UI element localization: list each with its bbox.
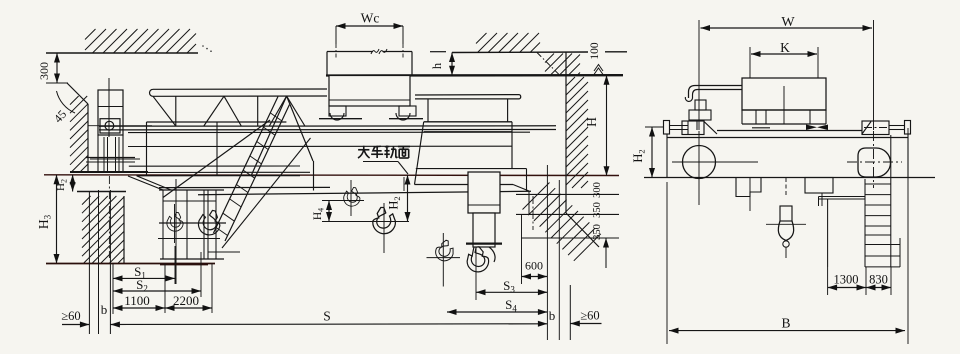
aux hook low (433, 238, 457, 263)
ceiling notch hatch (545, 54, 554, 63)
dimension 1300 830 (827, 267, 829, 295)
right rail centerline (532, 196, 534, 230)
svg-text:1100: 1100 (124, 293, 150, 308)
svg-text:830: 830 (869, 273, 888, 287)
right wall dim ticks (516, 193, 619, 195)
dimension K (749, 47, 751, 78)
dimension h (451, 53, 453, 76)
left wheel centerline (108, 176, 110, 258)
svg-text:2200: 2200 (173, 293, 199, 308)
hoist hook A1 (166, 212, 184, 232)
deck long lines (99, 125, 556, 127)
left wall face (87, 104, 89, 172)
hoist cage verticals (162, 190, 164, 259)
side end block left (682, 121, 704, 135)
side end block right (862, 121, 889, 135)
dimension 600 (521, 215, 523, 284)
under rail box left (736, 178, 761, 197)
trolley body (329, 76, 410, 107)
ladder stringers (214, 97, 279, 234)
ceiling hatch right (476, 33, 487, 44)
ceiling end dots (202, 45, 204, 47)
trolley rail bowtie (806, 125, 817, 131)
crane top heavy line (326, 74, 623, 77)
ceiling line left (46, 52, 198, 54)
dimension 1100 2200 (112, 264, 114, 315)
H4 top ref line (322, 200, 364, 202)
stair handrail (163, 120, 270, 198)
dimension H3 (56, 175, 58, 264)
main hook suspension (466, 243, 502, 245)
dimension W (698, 20, 700, 130)
svg-text:S: S (323, 309, 331, 324)
walkway bar left (150, 89, 328, 96)
floor line (46, 263, 215, 265)
svg-text:H: H (584, 117, 599, 127)
dimension H4 (328, 201, 330, 222)
dimension S2 (200, 252, 202, 297)
hoist hook A2 (196, 208, 222, 237)
trolley top break marks (371, 49, 379, 54)
rail surface line full (44, 174, 619, 177)
right buffer side view (905, 121, 911, 135)
svg-text:K: K (780, 40, 790, 55)
side rail line (644, 177, 935, 179)
under rail box right (805, 178, 833, 194)
svg-text:h: h (430, 62, 444, 69)
gooseneck conduit pipe (689, 86, 743, 99)
girder end bevels (128, 176, 163, 190)
main lowered hook (465, 246, 490, 274)
left end carriage bearing (100, 119, 120, 133)
svg-text:300: 300 (37, 62, 51, 80)
dimension S1 (174, 246, 176, 284)
side girder top lines (717, 130, 862, 132)
dimension S3 (546, 165, 548, 340)
svg-text:350: 350 (592, 224, 603, 240)
ceiling line right (430, 51, 446, 53)
hoist cage horizontals (159, 189, 224, 191)
wall chamfer 45 (67, 83, 88, 104)
svg-text:Wc: Wc (361, 11, 380, 26)
left wall hatch (70, 96, 79, 105)
rail leader arrow (403, 177, 405, 191)
side ladder (864, 179, 866, 267)
walkway bar right (415, 95, 521, 99)
arrow under ticks (605, 238, 607, 268)
side platform (819, 196, 866, 198)
main hook block (468, 172, 500, 213)
dimension S4 (447, 311, 547, 313)
left end carriage column (98, 90, 123, 135)
svg-text:b: b (101, 302, 108, 317)
H4 H2 bottom ref line (322, 221, 409, 223)
dimension H2 mid (407, 175, 409, 222)
dimension Wc (335, 26, 337, 44)
dimension S (110, 323, 547, 326)
svg-text:300: 300 (592, 182, 603, 198)
side hook (780, 206, 792, 221)
svg-text:100: 100 (589, 42, 601, 60)
dimension 300 ceiling (46, 82, 68, 84)
side wheel right (858, 148, 891, 177)
dimension H2 left (72, 175, 74, 192)
walkway truss braces (153, 96, 176, 126)
svg-text:600: 600 (525, 259, 543, 273)
svg-text:b: b (549, 308, 556, 323)
trolley wheels (330, 113, 344, 120)
trolley wheel boxes (329, 106, 346, 116)
svg-text:350: 350 (592, 202, 603, 218)
side wheel left (683, 146, 716, 179)
dimension B (666, 182, 668, 344)
svg-text:W: W (781, 15, 795, 30)
extension lines left bottom (88, 192, 90, 334)
side carriage ends (666, 135, 668, 178)
left pier edge (123, 196, 125, 263)
raised main hook (373, 208, 396, 234)
label rail surface (drawn CJK strokes) (358, 149, 369, 151)
ceiling hatch left (85, 29, 96, 40)
svg-text:≥60: ≥60 (61, 309, 80, 323)
ladder rungs (270, 113, 282, 121)
trolley rail segments (319, 118, 362, 120)
right wall hatch (566, 77, 575, 86)
walkway posts right (427, 99, 429, 122)
A-frame legs (251, 96, 287, 176)
svg-text:B: B (781, 316, 790, 331)
trolley upper box (327, 51, 373, 53)
right pier chamfer hatch band (523, 183, 550, 210)
gooseneck post (689, 110, 711, 120)
svg-text:≥60: ≥60 (580, 309, 599, 323)
dimension H (606, 75, 608, 176)
dimension H2 side (645, 126, 663, 128)
raised hook small (343, 186, 362, 207)
left runway beam (86, 157, 135, 159)
extension lines right bottom (558, 180, 560, 340)
left pier hatch (82, 196, 91, 205)
svg-text:1300: 1300 (834, 273, 859, 287)
right wall face (565, 52, 567, 213)
left crane wheel (103, 137, 105, 172)
left girder section (147, 121, 287, 123)
left buffer side view (664, 121, 670, 135)
side trolley box (742, 78, 826, 110)
stair landing (208, 251, 240, 253)
girder bottom long line (198, 191, 531, 194)
right girder section (424, 121, 512, 123)
